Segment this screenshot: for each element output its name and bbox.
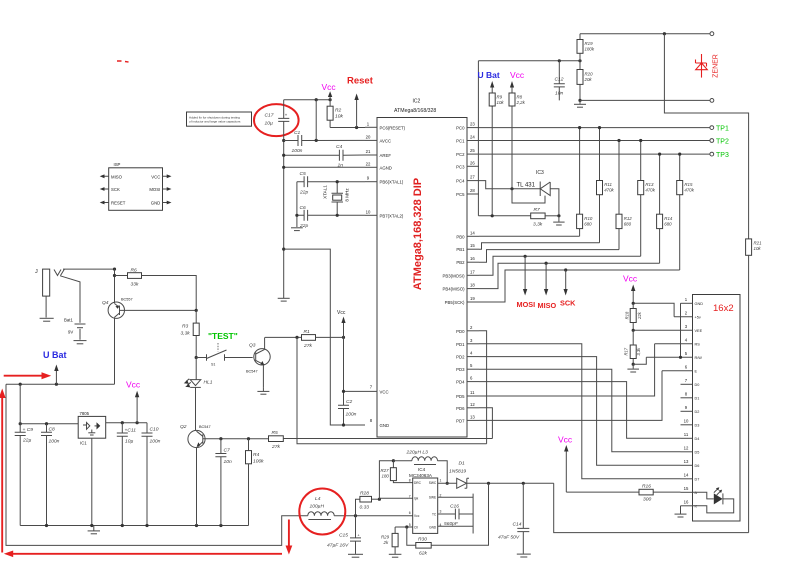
svg-text:TC: TC <box>432 513 437 517</box>
IC2 pin 14 PB0 <box>456 230 479 239</box>
transistor Q2 BC547 <box>180 424 211 526</box>
wire Q3 collector row <box>265 336 302 338</box>
svg-text:PB4(MISO): PB4(MISO) <box>443 287 466 292</box>
svg-text:+C11: +C11 <box>125 428 137 434</box>
node SCK tap <box>564 268 567 271</box>
svg-text:MC34063A: MC34063A <box>409 473 433 478</box>
node R10 TP1 <box>578 126 581 129</box>
svg-text:10k: 10k <box>497 100 505 105</box>
svg-text:PB0: PB0 <box>456 234 465 239</box>
wire PD5 to RS <box>479 344 655 396</box>
node reset junction <box>355 126 358 129</box>
svg-text:Vcc: Vcc <box>623 274 638 284</box>
svg-text:C4: C4 <box>336 144 343 150</box>
ISP left arrows <box>100 174 109 204</box>
capacitor C10 <box>142 423 161 526</box>
wire PB5 to R15 <box>479 270 680 302</box>
transistor Q4 BC557 <box>102 269 133 384</box>
svg-text:Vcc: Vcc <box>126 380 141 390</box>
svg-text:TP2: TP2 <box>716 139 729 146</box>
IC2 pin 22 AGND <box>365 161 392 170</box>
wire SWE row <box>438 496 473 498</box>
LCD pin 4 RS <box>655 338 701 347</box>
wire K to ground <box>680 506 682 514</box>
node bus C11 <box>121 524 124 527</box>
svg-text:AREF: AREF <box>380 153 392 158</box>
svg-text:R1: R1 <box>304 329 311 335</box>
svg-text:D6: D6 <box>695 464 700 468</box>
resistor R10 <box>577 128 593 237</box>
svg-text:R17: R17 <box>623 347 628 355</box>
svg-text:3,3k: 3,3k <box>181 331 191 337</box>
resistor R11 <box>597 128 615 243</box>
svg-text:C15: C15 <box>339 533 348 539</box>
svg-text:DRC: DRC <box>414 481 422 485</box>
svg-text:10k: 10k <box>335 114 343 120</box>
node L3 left R27 <box>392 459 395 462</box>
node R6 left top <box>113 274 116 277</box>
svg-text:R18: R18 <box>624 311 629 319</box>
svg-text:L4: L4 <box>315 496 321 502</box>
ISP right arrows <box>163 174 172 204</box>
svg-text:PB1: PB1 <box>456 247 465 252</box>
svg-text:100n: 100n <box>150 439 161 445</box>
SCK arrow <box>560 270 576 308</box>
svg-text:C12: C12 <box>555 77 564 83</box>
resistor R27 <box>381 461 413 483</box>
node jack top <box>113 268 116 271</box>
svg-text:+ C9: + C9 <box>23 427 34 433</box>
IC2 pin 15 PB1 <box>456 243 479 252</box>
wire PB2 to R12 <box>479 250 619 263</box>
svg-text:300: 300 <box>643 497 651 503</box>
svg-text:R3: R3 <box>182 324 189 330</box>
node AVCC C1 right <box>315 139 318 142</box>
node R19 R20 <box>578 59 581 62</box>
wire PD6 descent <box>479 408 492 439</box>
resistor R14 <box>657 154 673 263</box>
battery Bat1 <box>64 318 87 344</box>
node R1 left <box>295 336 298 339</box>
node rail AGND <box>282 166 285 169</box>
vertical decoupling rail <box>283 141 285 299</box>
terminal bottom <box>710 99 714 103</box>
IC2 pin 28 PC5 <box>456 188 479 197</box>
svg-text:20k: 20k <box>584 77 593 82</box>
crystal XTAL1 <box>322 182 349 216</box>
svg-text:R8: R8 <box>517 95 523 100</box>
wire terminal top rail <box>580 33 710 35</box>
LED HL1 <box>184 358 213 431</box>
svg-text:10n: 10n <box>224 459 232 465</box>
Vcc arrow right <box>510 70 525 107</box>
svg-text:47uF 50V: 47uF 50V <box>498 535 520 541</box>
svg-text:C10: C10 <box>150 427 159 433</box>
LCD pin 1 GND <box>681 297 704 306</box>
svg-text:AGND: AGND <box>380 165 392 170</box>
svg-text:MISO: MISO <box>111 174 123 179</box>
svg-text:R2: R2 <box>335 108 342 114</box>
svg-text:6: 6 <box>409 511 411 515</box>
wire C17 top to Vcc rail <box>284 99 330 101</box>
wire 7805 input row <box>20 423 78 425</box>
svg-text:Q2: Q2 <box>180 424 187 430</box>
resistor R20 <box>577 61 593 101</box>
node RW junction <box>679 356 682 359</box>
wire PB3 to R13 <box>479 256 641 275</box>
node R18 top <box>632 302 635 305</box>
wire PB0 to R10 <box>479 235 580 237</box>
node rail C14 <box>522 482 525 485</box>
svg-text:PC4: PC4 <box>456 179 465 184</box>
red arrow down at L4 <box>286 520 293 555</box>
wire PB1 to R11 <box>479 243 600 249</box>
svg-text:+: + <box>358 534 360 538</box>
svg-text:2,2k: 2,2k <box>516 100 526 105</box>
node bus C7 <box>219 524 222 527</box>
svg-text:100n: 100n <box>346 412 357 418</box>
svg-text:+5v: +5v <box>695 316 701 320</box>
wire Q2 base row <box>211 438 269 440</box>
svg-text:10: 10 <box>366 209 371 214</box>
node R15 TP3 <box>678 153 681 156</box>
capacitor C8 <box>41 424 60 526</box>
IC2 pin 10 PB7(XTAL2) <box>365 209 404 218</box>
svg-text:HL1: HL1 <box>204 380 213 386</box>
svg-text:27k: 27k <box>271 444 280 450</box>
wire PD0 descent <box>479 331 487 444</box>
svg-text:MISO: MISO <box>538 301 557 310</box>
ISP connector <box>109 162 163 210</box>
IC2 pin 8 GND <box>344 418 390 428</box>
LCD 16x2 box <box>693 295 741 522</box>
connector J power jack <box>35 269 65 318</box>
capacitor C11 <box>117 423 136 526</box>
IC2 pin 24 PC1 <box>456 135 479 144</box>
node bus Q2 <box>195 524 198 527</box>
capacitor C2 <box>338 399 357 425</box>
regulator IC1 7805 <box>78 411 106 446</box>
svg-text:PC1: PC1 <box>456 139 465 144</box>
svg-text:3: 3 <box>440 510 442 514</box>
svg-text:7: 7 <box>409 494 411 498</box>
svg-text:D1: D1 <box>695 397 700 401</box>
svg-text:R19: R19 <box>585 41 594 46</box>
IC2 pin 9 PB6(XTAL1) <box>365 176 404 185</box>
LCD pin 5 RW <box>646 351 702 360</box>
svg-text:R21: R21 <box>754 241 763 246</box>
red arrow bottom left <box>4 551 282 558</box>
wire R2 to pin1 <box>330 127 365 129</box>
wire 7805 output row <box>106 422 147 424</box>
svg-text:J: J <box>35 269 38 275</box>
IC2 pin 20 AVCC <box>365 134 391 143</box>
resistor R17 <box>623 330 641 364</box>
capacitor C9 <box>15 384 34 525</box>
svg-text:13: 13 <box>684 459 689 464</box>
svg-text:TL 431: TL 431 <box>517 183 536 189</box>
svg-text:100µH: 100µH <box>310 504 325 510</box>
svg-text:15: 15 <box>470 243 475 248</box>
wire TP3 row <box>479 153 710 155</box>
svg-text:CII: CII <box>414 525 418 529</box>
node output Vcc arrow <box>136 421 139 424</box>
node TP2 <box>710 139 714 143</box>
wire Vcc to pin7 <box>343 337 345 405</box>
svg-text:C16: C16 <box>450 504 459 510</box>
resistor R28 <box>356 491 380 516</box>
svg-text:PD7: PD7 <box>456 418 465 423</box>
svg-text:10k: 10k <box>754 246 762 251</box>
svg-text:PC2: PC2 <box>456 152 465 157</box>
svg-text:"TEST": "TEST" <box>208 331 238 341</box>
svg-text:23: 23 <box>470 122 475 127</box>
svg-text:1: 1 <box>440 479 442 483</box>
svg-text:R10: R10 <box>584 216 593 221</box>
svg-text:Vcc: Vcc <box>558 435 573 445</box>
resistor R4 <box>246 439 265 526</box>
capacitor C4 <box>284 144 365 168</box>
svg-text:11: 11 <box>684 432 689 437</box>
IC2 pin 26 PC3 <box>456 160 479 169</box>
wire CII row <box>395 526 413 528</box>
terminal top <box>710 32 714 36</box>
svg-text:GND: GND <box>151 201 161 206</box>
svg-text:470k: 470k <box>604 188 614 193</box>
svg-text:C17: C17 <box>265 113 274 119</box>
svg-text:D5: D5 <box>695 451 700 455</box>
svg-text:Q4: Q4 <box>102 300 109 306</box>
svg-text:16: 16 <box>684 500 689 505</box>
LCD pin 3 VEE <box>633 324 702 333</box>
svg-text:C14: C14 <box>513 522 522 528</box>
svg-text:C2: C2 <box>346 399 353 405</box>
LCD pin 12 D5 <box>681 446 700 455</box>
svg-text:R11: R11 <box>604 182 612 187</box>
svg-text:100k: 100k <box>253 459 264 465</box>
node Vcc top junction <box>315 98 318 101</box>
wire Vcc to +5v pin <box>633 303 674 317</box>
ground R20 <box>574 100 586 107</box>
svg-text:IC1: IC1 <box>80 441 87 446</box>
svg-text:14: 14 <box>470 230 475 235</box>
svg-text:PD2: PD2 <box>456 355 465 360</box>
wire TP2 row <box>479 140 710 142</box>
svg-text:Vcc: Vcc <box>337 310 346 316</box>
node xtal top <box>336 180 339 183</box>
svg-text:MOSI: MOSI <box>517 300 536 309</box>
inductor L3 <box>393 450 447 484</box>
wire RW to ground node <box>633 357 646 364</box>
node zener top <box>663 32 666 35</box>
wire SWC row <box>438 482 457 484</box>
wire left edge down <box>6 384 308 545</box>
U Bat rail left <box>6 383 115 385</box>
svg-text:GND: GND <box>695 302 704 306</box>
svg-text:BC557: BC557 <box>121 298 133 302</box>
svg-text:10n: 10n <box>555 91 563 97</box>
IC2 pin 25 PC2 <box>456 148 479 157</box>
resistor R3 <box>181 310 200 357</box>
svg-text:PB7(XTAL2): PB7(XTAL2) <box>380 213 404 218</box>
svg-text:680: 680 <box>664 221 672 226</box>
wire PC5 join <box>477 193 480 195</box>
svg-text:SCK: SCK <box>560 299 576 308</box>
node pin7 <box>342 390 345 393</box>
svg-text:MOSI: MOSI <box>149 187 160 192</box>
wire top rail to AVCC <box>315 100 317 141</box>
resistor R9 <box>489 93 504 216</box>
svg-text:R13: R13 <box>645 182 654 187</box>
IC4 MC34063A box <box>409 467 442 533</box>
red arrow up left edge <box>0 389 6 553</box>
node xtal bottom <box>336 214 339 217</box>
svg-text:D0: D0 <box>695 383 700 387</box>
svg-text:BC547: BC547 <box>246 370 258 374</box>
svg-text:22p: 22p <box>299 190 308 196</box>
node L4 right <box>354 514 357 517</box>
IC2 pin 2 PD0 <box>456 325 479 334</box>
ground K <box>675 514 687 517</box>
node R17 bottom <box>632 363 635 366</box>
svg-text:R4: R4 <box>253 452 260 458</box>
node rail AVCC <box>282 139 285 142</box>
wire jack switch to battery <box>60 276 80 323</box>
svg-text:R28: R28 <box>360 491 369 497</box>
wire output rail <box>467 482 554 484</box>
svg-text:22: 22 <box>366 161 371 166</box>
capacitor C14 <box>498 483 529 553</box>
svg-text:IC4: IC4 <box>418 467 426 472</box>
svg-text:C7: C7 <box>224 448 231 454</box>
wire AGND row <box>284 166 365 168</box>
svg-text:PB3(MOSI): PB3(MOSI) <box>443 273 466 278</box>
svg-text:19: 19 <box>470 296 475 301</box>
node U Bat arrow <box>55 383 58 386</box>
svg-text:R16: R16 <box>642 484 651 490</box>
switch S1 <box>195 343 253 367</box>
node C6 left <box>295 214 298 217</box>
svg-text:of inductor and large value ca: of inductor and large value capacitors <box>189 120 241 124</box>
svg-text:PD0: PD0 <box>456 329 465 334</box>
node TP3 <box>710 152 714 156</box>
wire Ipk column <box>379 461 393 500</box>
node R13 TP2 <box>639 139 642 142</box>
svg-text:8: 8 <box>409 479 411 483</box>
Vcc arrow boost <box>558 435 573 493</box>
ground main rail <box>278 298 290 301</box>
red circle around L4 <box>299 489 345 535</box>
svg-text:R30: R30 <box>418 537 427 543</box>
svg-text:20: 20 <box>366 134 371 139</box>
svg-text:2: 2 <box>440 493 442 497</box>
resistor R2 <box>327 100 343 128</box>
svg-text:47µF 16V: 47µF 16V <box>327 543 349 549</box>
svg-text:28: 28 <box>470 188 475 193</box>
Vcc arrow at regulator <box>126 380 141 423</box>
svg-text:220µH L3: 220µH L3 <box>406 450 429 456</box>
red circle around C17 <box>254 104 299 136</box>
IC2 pin 6 PD4 <box>456 376 479 385</box>
svg-text:R/W: R/W <box>695 356 703 360</box>
svg-text:D4: D4 <box>695 437 700 441</box>
svg-text:PB5(SCK): PB5(SCK) <box>445 300 465 305</box>
svg-text:24: 24 <box>470 135 475 140</box>
wire 7805 gnd <box>91 438 93 525</box>
node C12 top <box>558 59 561 62</box>
svg-text:PD4: PD4 <box>456 380 465 385</box>
svg-text:10µ: 10µ <box>125 439 133 445</box>
ground C14 <box>517 554 531 557</box>
svg-text:33k: 33k <box>131 282 139 288</box>
svg-text:C5: C5 <box>300 171 307 177</box>
svg-text:17: 17 <box>470 269 475 274</box>
svg-text:GND: GND <box>429 525 437 529</box>
ground C15 <box>348 554 363 557</box>
IC2 pin 18 PB4(MISO) <box>443 283 479 292</box>
U Bat arrow <box>43 350 67 384</box>
IC2 pin 12 PD6 <box>456 402 479 411</box>
IC2 pin 23 PC0 <box>456 122 479 131</box>
node R20 bottom <box>578 99 581 102</box>
svg-text:62k: 62k <box>419 551 427 557</box>
svg-text:470k: 470k <box>645 188 655 193</box>
svg-text:16x2: 16x2 <box>713 303 734 314</box>
wire PB4 to R14 <box>479 263 660 288</box>
IC3 TL431 <box>512 170 559 216</box>
svg-text:22µ: 22µ <box>22 438 31 444</box>
svg-text:26: 26 <box>470 160 475 165</box>
ground bus symbol <box>88 526 100 534</box>
svg-text:IC2: IC2 <box>413 99 421 105</box>
svg-text:RS: RS <box>695 343 701 347</box>
svg-text:25: 25 <box>470 148 475 153</box>
svg-text:ATMega8,168,328 DIP: ATMega8,168,328 DIP <box>412 178 424 290</box>
svg-text:VCC: VCC <box>151 174 160 179</box>
svg-text:PC6(RESET): PC6(RESET) <box>380 125 406 130</box>
wire GND pin to RW <box>680 303 682 357</box>
node U Bat rail C9 <box>19 383 22 386</box>
svg-text:Vcc: Vcc <box>414 514 420 518</box>
svg-text:12: 12 <box>470 402 475 407</box>
svg-text:8 MHz: 8 MHz <box>345 188 350 202</box>
svg-text:18: 18 <box>470 283 475 288</box>
svg-text:R20: R20 <box>585 72 594 77</box>
node rail AGND branch <box>282 248 285 251</box>
node CII R30 <box>405 525 408 528</box>
svg-text:TP1: TP1 <box>716 126 729 133</box>
wire SWE GND column <box>472 494 474 534</box>
svg-text:PB2: PB2 <box>456 260 465 265</box>
svg-text:180: 180 <box>382 473 390 478</box>
svg-text:PD3: PD3 <box>456 367 465 372</box>
node input C9 <box>19 422 22 425</box>
svg-text:Reset: Reset <box>347 76 374 87</box>
ground R7 <box>553 216 564 225</box>
resistor R8 <box>509 93 526 189</box>
svg-text:15: 15 <box>684 486 689 491</box>
wire sense row to C12 <box>478 60 580 62</box>
svg-text:PD6: PD6 <box>456 406 465 411</box>
svg-text:ZENER: ZENER <box>713 54 720 78</box>
svg-text:Ipk: Ipk <box>414 497 419 501</box>
LCD pin 13 D6 <box>681 459 700 468</box>
svg-text:XTAL1: XTAL1 <box>322 185 327 199</box>
svg-text:27: 27 <box>470 175 475 180</box>
ground R17 <box>627 364 639 372</box>
svg-text:10: 10 <box>684 419 689 424</box>
svg-text:R29: R29 <box>381 535 390 540</box>
